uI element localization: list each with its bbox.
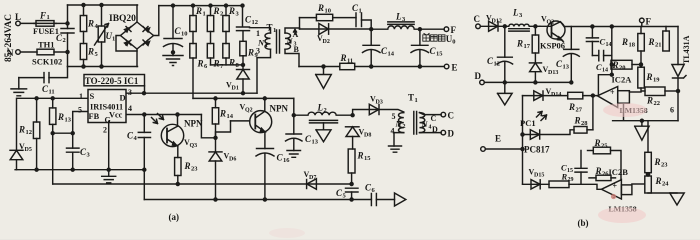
diode VD13 bbox=[529, 53, 558, 82]
svg-text:D: D bbox=[120, 93, 126, 103]
capacitor C13 (a) bbox=[286, 115, 319, 150]
wire N4 top to C bbox=[420, 113, 442, 115]
chassis triangle below D rail bbox=[498, 82, 513, 105]
terminal E (b) bbox=[481, 134, 501, 152]
node dot R22 TL431 bbox=[677, 90, 680, 93]
node dot label box connector bbox=[143, 92, 146, 95]
resistor R12 bbox=[18, 98, 40, 169]
node dot R4 top bbox=[82, 4, 85, 7]
thermistor TH1 SCK102 bbox=[32, 40, 62, 67]
chassis triangle (b) right bbox=[670, 193, 684, 205]
svg-text:IC2B: IC2B bbox=[609, 167, 629, 177]
IC1 body IRIS4011 bbox=[88, 90, 126, 125]
diode VD12 bbox=[480, 14, 505, 32]
label VQ2 NPN bbox=[240, 103, 289, 114]
resistor R27 bbox=[568, 92, 598, 113]
node dot C16 bottom railB bbox=[263, 198, 266, 201]
node dot top rail C14b col bbox=[610, 25, 613, 28]
feedback box IC2B bbox=[621, 185, 632, 195]
node dot ground stub bbox=[322, 65, 325, 68]
resistor R19 bbox=[638, 51, 660, 88]
node dot railB VD6 bbox=[214, 198, 217, 201]
node dot U1 bottom bbox=[100, 65, 103, 68]
resistor R17 bbox=[516, 26, 539, 53]
svg-text:T: T bbox=[408, 93, 414, 103]
svg-text:D14: D14 bbox=[551, 92, 561, 98]
svg-text:20: 20 bbox=[619, 65, 626, 72]
resistor R4 bbox=[80, 5, 98, 44]
svg-text:14: 14 bbox=[606, 42, 612, 48]
svg-text:(b): (b) bbox=[578, 218, 589, 228]
node dot VD1 bottom drain wire bbox=[242, 92, 245, 95]
svg-text:NPN: NPN bbox=[270, 104, 289, 114]
svg-text:D1: D1 bbox=[232, 86, 239, 92]
node dot railA end bbox=[350, 183, 353, 186]
svg-text:TO-220-5 IC1: TO-220-5 IC1 bbox=[85, 76, 139, 86]
wire N2 bottom to ground bbox=[394, 133, 404, 146]
svg-text:1: 1 bbox=[415, 97, 418, 104]
wire B hook down bbox=[293, 98, 295, 115]
svg-text:NPN: NPN bbox=[184, 119, 203, 129]
wire VQ2a base jog bbox=[216, 121, 231, 138]
ground below C10 bbox=[163, 56, 183, 66]
wire A node vertical bbox=[299, 18, 301, 29]
svg-text:R: R bbox=[357, 151, 364, 161]
node dot R13 bottom bbox=[51, 132, 54, 135]
svg-text:E: E bbox=[495, 134, 501, 144]
wire pin1 source rail bbox=[18, 97, 88, 99]
svg-text:D15: D15 bbox=[534, 173, 544, 179]
svg-text:14: 14 bbox=[388, 51, 395, 58]
winding N4 bbox=[420, 113, 432, 133]
svg-text:R: R bbox=[219, 109, 226, 119]
node dot jog bbox=[610, 73, 613, 76]
node dot FB junction bbox=[71, 132, 74, 135]
wire top bus2 bbox=[159, 5, 243, 7]
resistor R13 bbox=[50, 98, 72, 133]
wire IC2A box to R19 col bbox=[629, 91, 641, 93]
svg-text:6: 6 bbox=[670, 106, 674, 115]
svg-text:D: D bbox=[475, 71, 482, 81]
diode VD8 bbox=[346, 127, 372, 149]
node dot R2 top bbox=[209, 4, 212, 7]
svg-text:R: R bbox=[340, 53, 347, 63]
opto light arrows bbox=[152, 114, 164, 124]
resistor R7 bbox=[207, 32, 224, 71]
svg-text:IC2A: IC2A bbox=[612, 75, 633, 85]
svg-text:FB: FB bbox=[89, 112, 100, 121]
inductor L2 bbox=[294, 103, 353, 123]
svg-text:10: 10 bbox=[325, 8, 332, 15]
node dot R14 top bbox=[214, 97, 217, 100]
node dot clamp bbox=[242, 63, 245, 66]
node dot VQ2a collector bbox=[263, 97, 266, 100]
svg-text:1: 1 bbox=[203, 11, 206, 18]
svg-text:1: 1 bbox=[47, 14, 50, 21]
svg-text:R: R bbox=[574, 116, 581, 126]
svg-text:29: 29 bbox=[568, 177, 574, 183]
svg-text:C: C bbox=[431, 114, 437, 123]
svg-text:R: R bbox=[195, 6, 202, 16]
node dot E column bbox=[521, 148, 524, 151]
node dot rail1 G bbox=[107, 168, 110, 171]
capacitor C10 polarized bbox=[164, 6, 188, 56]
ground at C11 bbox=[11, 78, 27, 96]
shunt reference TL431A bbox=[672, 27, 691, 92]
wire R6 bottom row bbox=[193, 97, 294, 99]
node dot C12 top bbox=[241, 4, 244, 7]
svg-text:2: 2 bbox=[403, 124, 406, 130]
svg-text:R: R bbox=[213, 59, 220, 69]
node dot R12 top bbox=[35, 97, 38, 100]
svg-text:N: N bbox=[395, 119, 403, 129]
wire fuse to node bbox=[56, 22, 68, 24]
wire to F terminal bbox=[420, 28, 444, 30]
resistor R9 bbox=[240, 41, 259, 65]
label PC1 with arrows bbox=[520, 112, 547, 129]
svg-text:E: E bbox=[452, 63, 458, 73]
node dot R27 R28 junction bbox=[591, 94, 594, 97]
svg-text:D5: D5 bbox=[25, 147, 32, 153]
svg-text:27: 27 bbox=[576, 107, 583, 114]
terminal F (b) bbox=[640, 17, 652, 27]
svg-text:L: L bbox=[512, 8, 519, 18]
opto LED PC817 bbox=[523, 130, 575, 155]
terminal L bbox=[15, 12, 21, 26]
svg-text:15: 15 bbox=[436, 51, 443, 58]
svg-text:23: 23 bbox=[661, 162, 668, 169]
node dot LED row bbox=[521, 133, 524, 136]
svg-text:18: 18 bbox=[629, 42, 636, 49]
node dot R17 top bbox=[534, 25, 537, 28]
pink smudge 1 bbox=[603, 103, 647, 117]
svg-text:R: R bbox=[646, 72, 653, 82]
chassis triangle below lower bus bbox=[635, 121, 649, 141]
opto LED column bbox=[522, 96, 524, 184]
resistor R2 bbox=[207, 6, 223, 32]
svg-text:R: R bbox=[228, 6, 235, 16]
svg-text:+: + bbox=[613, 182, 618, 191]
resistor R23 bbox=[175, 158, 199, 185]
svg-text:D: D bbox=[448, 129, 455, 139]
svg-text:13: 13 bbox=[563, 64, 570, 71]
wire C12 node to primary top bbox=[250, 28, 271, 33]
node dot R1 top bbox=[192, 4, 195, 7]
capacitor C14 (b) second bbox=[592, 51, 611, 74]
ground below C13a bbox=[287, 151, 301, 158]
node dot VD8 top bbox=[351, 114, 354, 117]
svg-text:15: 15 bbox=[364, 155, 371, 162]
svg-text:R: R bbox=[654, 157, 661, 167]
svg-text:KSP06: KSP06 bbox=[540, 41, 565, 51]
svg-text:R: R bbox=[87, 47, 94, 57]
svg-text:R: R bbox=[621, 37, 628, 47]
node dot C10 bottom bbox=[172, 51, 175, 54]
wire Vcc corner to R14 node bbox=[201, 115, 215, 138]
diode VD14 bbox=[534, 87, 562, 100]
resistor R5 bbox=[80, 44, 98, 67]
wire pin4 Vcc bbox=[127, 114, 202, 116]
inductor L3 (b) bbox=[505, 8, 540, 32]
node dot C15 bottom bbox=[418, 65, 421, 68]
capacitor C15 output bbox=[411, 29, 443, 66]
svg-text:R: R bbox=[594, 138, 601, 148]
node dot VD12 out bbox=[503, 25, 506, 28]
svg-text:16: 16 bbox=[283, 157, 290, 164]
node dot VQ3 collector bbox=[176, 113, 179, 116]
wire L to fuse bbox=[20, 22, 36, 24]
svg-text:R: R bbox=[317, 3, 324, 13]
transistor VQ2 (b) KSP06 bbox=[540, 21, 565, 42]
svg-text:10: 10 bbox=[181, 31, 188, 38]
wire FB node row bbox=[53, 132, 73, 134]
svg-text:TL431A: TL431A bbox=[682, 35, 691, 64]
svg-text:D13: D13 bbox=[548, 70, 558, 76]
resistor R11 bbox=[340, 53, 355, 70]
svg-text:F: F bbox=[646, 17, 652, 27]
node dot L3 out bbox=[418, 28, 421, 31]
wire TL431 column lower bbox=[670, 91, 678, 121]
svg-text:D2: D2 bbox=[323, 39, 330, 45]
node dot C14 bottom bbox=[370, 65, 373, 68]
svg-text:N: N bbox=[421, 119, 429, 129]
feedback box IC2A bbox=[618, 91, 630, 104]
diode VD6 bbox=[209, 138, 236, 200]
svg-text:21: 21 bbox=[655, 42, 662, 49]
svg-text:14: 14 bbox=[602, 68, 608, 74]
capacitor C4 bbox=[127, 115, 151, 170]
resistor R10 bbox=[300, 3, 357, 21]
wire C4 column to railB bbox=[143, 170, 145, 200]
capacitor C13 (b) bbox=[556, 27, 579, 83]
svg-text:R: R bbox=[648, 37, 655, 47]
node dot D rail C12 bbox=[503, 81, 506, 84]
terminal D (b) bbox=[475, 71, 485, 85]
resistor R15 bbox=[348, 149, 371, 184]
svg-text:PC817: PC817 bbox=[524, 145, 550, 155]
diode VD5 bbox=[10, 98, 32, 169]
svg-text:R: R bbox=[247, 48, 254, 58]
node dot R13 top bbox=[51, 97, 54, 100]
wire lower bus b bbox=[613, 103, 678, 121]
svg-text:S: S bbox=[90, 91, 95, 101]
varistor U1 bbox=[95, 5, 116, 67]
svg-text:TH1: TH1 bbox=[38, 40, 55, 50]
node dot R20 left bbox=[610, 63, 613, 66]
resistor R14 bbox=[212, 98, 233, 137]
node dot R3 top bbox=[225, 4, 228, 7]
svg-text:L: L bbox=[395, 12, 402, 22]
node dot top rail C14a col bbox=[591, 25, 594, 28]
svg-text:D8: D8 bbox=[364, 133, 371, 139]
label T1 bbox=[408, 93, 418, 105]
node dot rail1 C4 end bbox=[143, 168, 146, 171]
capacitor C14 (b) first bbox=[586, 27, 611, 56]
wire E to opto column bbox=[485, 148, 522, 150]
svg-text:1: 1 bbox=[273, 27, 276, 34]
svg-text:12: 12 bbox=[494, 61, 501, 68]
primary winding N1 bbox=[256, 29, 271, 56]
wire railA bbox=[53, 183, 352, 185]
wire bridge left loop bbox=[116, 36, 137, 52]
node dot lower bus bbox=[640, 119, 643, 122]
svg-text:C: C bbox=[474, 14, 481, 24]
svg-text:28: 28 bbox=[581, 120, 588, 127]
svg-text:R: R bbox=[184, 161, 191, 171]
svg-text:R: R bbox=[516, 39, 523, 49]
svg-text:SCK102: SCK102 bbox=[32, 57, 62, 67]
wire bridge right to top bus2 bbox=[154, 6, 159, 36]
svg-text:N: N bbox=[7, 48, 14, 58]
diode VD2 bbox=[300, 24, 372, 46]
svg-text:24: 24 bbox=[662, 181, 669, 188]
node dot C4 top bbox=[143, 113, 146, 116]
resistor R6 bbox=[190, 32, 208, 99]
wire pin3 drain bbox=[127, 92, 258, 94]
wire bottom bus left bbox=[68, 66, 138, 68]
label VQ2 KSP06 bbox=[540, 15, 565, 51]
svg-text:2: 2 bbox=[63, 37, 66, 44]
svg-text:12: 12 bbox=[26, 129, 33, 136]
wire vertical input node column bbox=[67, 5, 69, 67]
resistor R25 bbox=[588, 138, 622, 180]
terminal C (b) bbox=[474, 14, 481, 29]
diode VD7 bbox=[304, 170, 317, 189]
svg-text:R: R bbox=[57, 112, 64, 122]
red mark IC2B bbox=[611, 194, 616, 199]
wire pin5 FB bbox=[73, 112, 88, 134]
capacitor C6 bbox=[365, 183, 395, 206]
node dot L junction bbox=[66, 22, 69, 25]
svg-text:0: 0 bbox=[452, 39, 455, 46]
node dot L2 junction bbox=[292, 114, 295, 117]
svg-text:+: + bbox=[610, 88, 615, 97]
svg-text:PC1: PC1 bbox=[520, 118, 536, 128]
node dot D rail VD13 bbox=[534, 81, 537, 84]
svg-text:R: R bbox=[655, 176, 662, 186]
svg-text:1: 1 bbox=[359, 8, 362, 15]
svg-text:5: 5 bbox=[78, 106, 82, 115]
resistor R1 bbox=[190, 6, 206, 32]
ground below G pin bbox=[102, 170, 116, 183]
diode VD1 bbox=[226, 65, 250, 93]
capacitor C5 bbox=[336, 188, 358, 200]
svg-text:(a): (a) bbox=[169, 212, 180, 222]
wire FB hook to railA bbox=[52, 133, 54, 184]
svg-text:Vcc: Vcc bbox=[109, 111, 123, 120]
label 输出端U0 (CJK simulated) bbox=[423, 33, 445, 41]
resistor R20 bbox=[611, 60, 641, 72]
node dot N junction bbox=[66, 51, 69, 54]
pink smudge 2 bbox=[598, 207, 646, 223]
wire R28 column bbox=[592, 96, 594, 130]
capacitor C16 bbox=[256, 149, 290, 200]
wire ground rail1 bbox=[15, 169, 144, 171]
svg-text:13: 13 bbox=[312, 139, 319, 146]
svg-text:D3: D3 bbox=[376, 100, 383, 106]
capacitor C2 bbox=[56, 29, 74, 45]
node dot C10 top bbox=[172, 4, 175, 7]
transistor VQ2 (a) bbox=[231, 98, 272, 148]
svg-text:F: F bbox=[39, 11, 46, 21]
op-amp IC2B LM1358 bbox=[601, 180, 636, 214]
resistor R18 bbox=[621, 27, 644, 52]
wire bridge bottom to bus bbox=[136, 49, 138, 67]
svg-text:11: 11 bbox=[49, 89, 55, 96]
fuse F1 FUSE1 bbox=[33, 11, 59, 37]
svg-text:D6: D6 bbox=[229, 157, 236, 163]
diode VD3 bbox=[353, 95, 404, 116]
node dot VD2 out bbox=[370, 28, 373, 31]
resistor R22 bbox=[641, 87, 678, 107]
svg-text:12: 12 bbox=[252, 19, 259, 26]
wire pin2 gate bbox=[108, 122, 110, 170]
arrow triangle railB end bbox=[395, 193, 406, 206]
wire N4 bottom to D bbox=[420, 132, 442, 134]
terminal C (a) bbox=[441, 111, 454, 121]
wire TH1 to node bbox=[20, 51, 67, 53]
wire railB bbox=[144, 199, 371, 201]
svg-text:IBQ20: IBQ20 bbox=[109, 14, 136, 24]
node dot U1 top bbox=[100, 4, 103, 7]
node dot rail1 R12 bbox=[35, 168, 38, 171]
svg-text:R: R bbox=[18, 125, 25, 135]
node dot R23 R24 junction bbox=[646, 173, 649, 176]
wire E rail bbox=[299, 66, 444, 68]
resistor R3 bbox=[223, 6, 240, 32]
svg-text:Q2: Q2 bbox=[245, 108, 253, 114]
node dot R14 bottom bbox=[214, 136, 217, 139]
wire C14 jog to output node bbox=[598, 75, 611, 96]
resistor R21 bbox=[648, 27, 670, 52]
resistor R26 bbox=[589, 166, 616, 181]
svg-text:R: R bbox=[213, 6, 220, 16]
wire R7 R8 to clamp node bbox=[211, 64, 244, 66]
wire D rail bbox=[484, 81, 571, 83]
resistor R23 (b) bbox=[645, 121, 668, 173]
wire VD14 row bbox=[523, 95, 568, 97]
node dot R18 R19 junction bbox=[640, 63, 643, 66]
op-amp IC2A LM1358 bbox=[597, 75, 647, 115]
svg-text:D12: D12 bbox=[492, 19, 502, 25]
node A label bbox=[293, 30, 299, 40]
svg-text:3: 3 bbox=[256, 47, 260, 56]
resistor R29 bbox=[549, 172, 601, 190]
svg-text:R: R bbox=[228, 58, 235, 68]
chassis triangle below L2 bbox=[316, 123, 331, 142]
label NPN VQ3 bbox=[184, 119, 203, 150]
svg-text:14: 14 bbox=[227, 113, 234, 120]
svg-text:2: 2 bbox=[103, 126, 107, 135]
secondary winding N3 bbox=[285, 33, 297, 49]
svg-text:1: 1 bbox=[265, 43, 268, 49]
svg-text:13: 13 bbox=[65, 117, 72, 124]
svg-text:4: 4 bbox=[128, 104, 132, 113]
transformer core bbox=[277, 30, 280, 53]
terminal F bbox=[444, 25, 456, 35]
node dot R5 bottom bbox=[82, 65, 85, 68]
bridge rectifier IBQ20 bbox=[109, 14, 154, 49]
svg-text:B: B bbox=[294, 45, 300, 54]
node dot D rail end C13b bbox=[570, 81, 573, 84]
resistor R24 bbox=[645, 173, 669, 193]
wire R24 bottom to triangle bbox=[648, 192, 677, 194]
wire secondary bottom to E rail bbox=[285, 49, 299, 66]
svg-text:R: R bbox=[87, 19, 94, 29]
resistor R8 bbox=[223, 32, 240, 70]
wire secondary top to A node bbox=[285, 28, 300, 33]
capacitor C12 bbox=[237, 6, 259, 42]
